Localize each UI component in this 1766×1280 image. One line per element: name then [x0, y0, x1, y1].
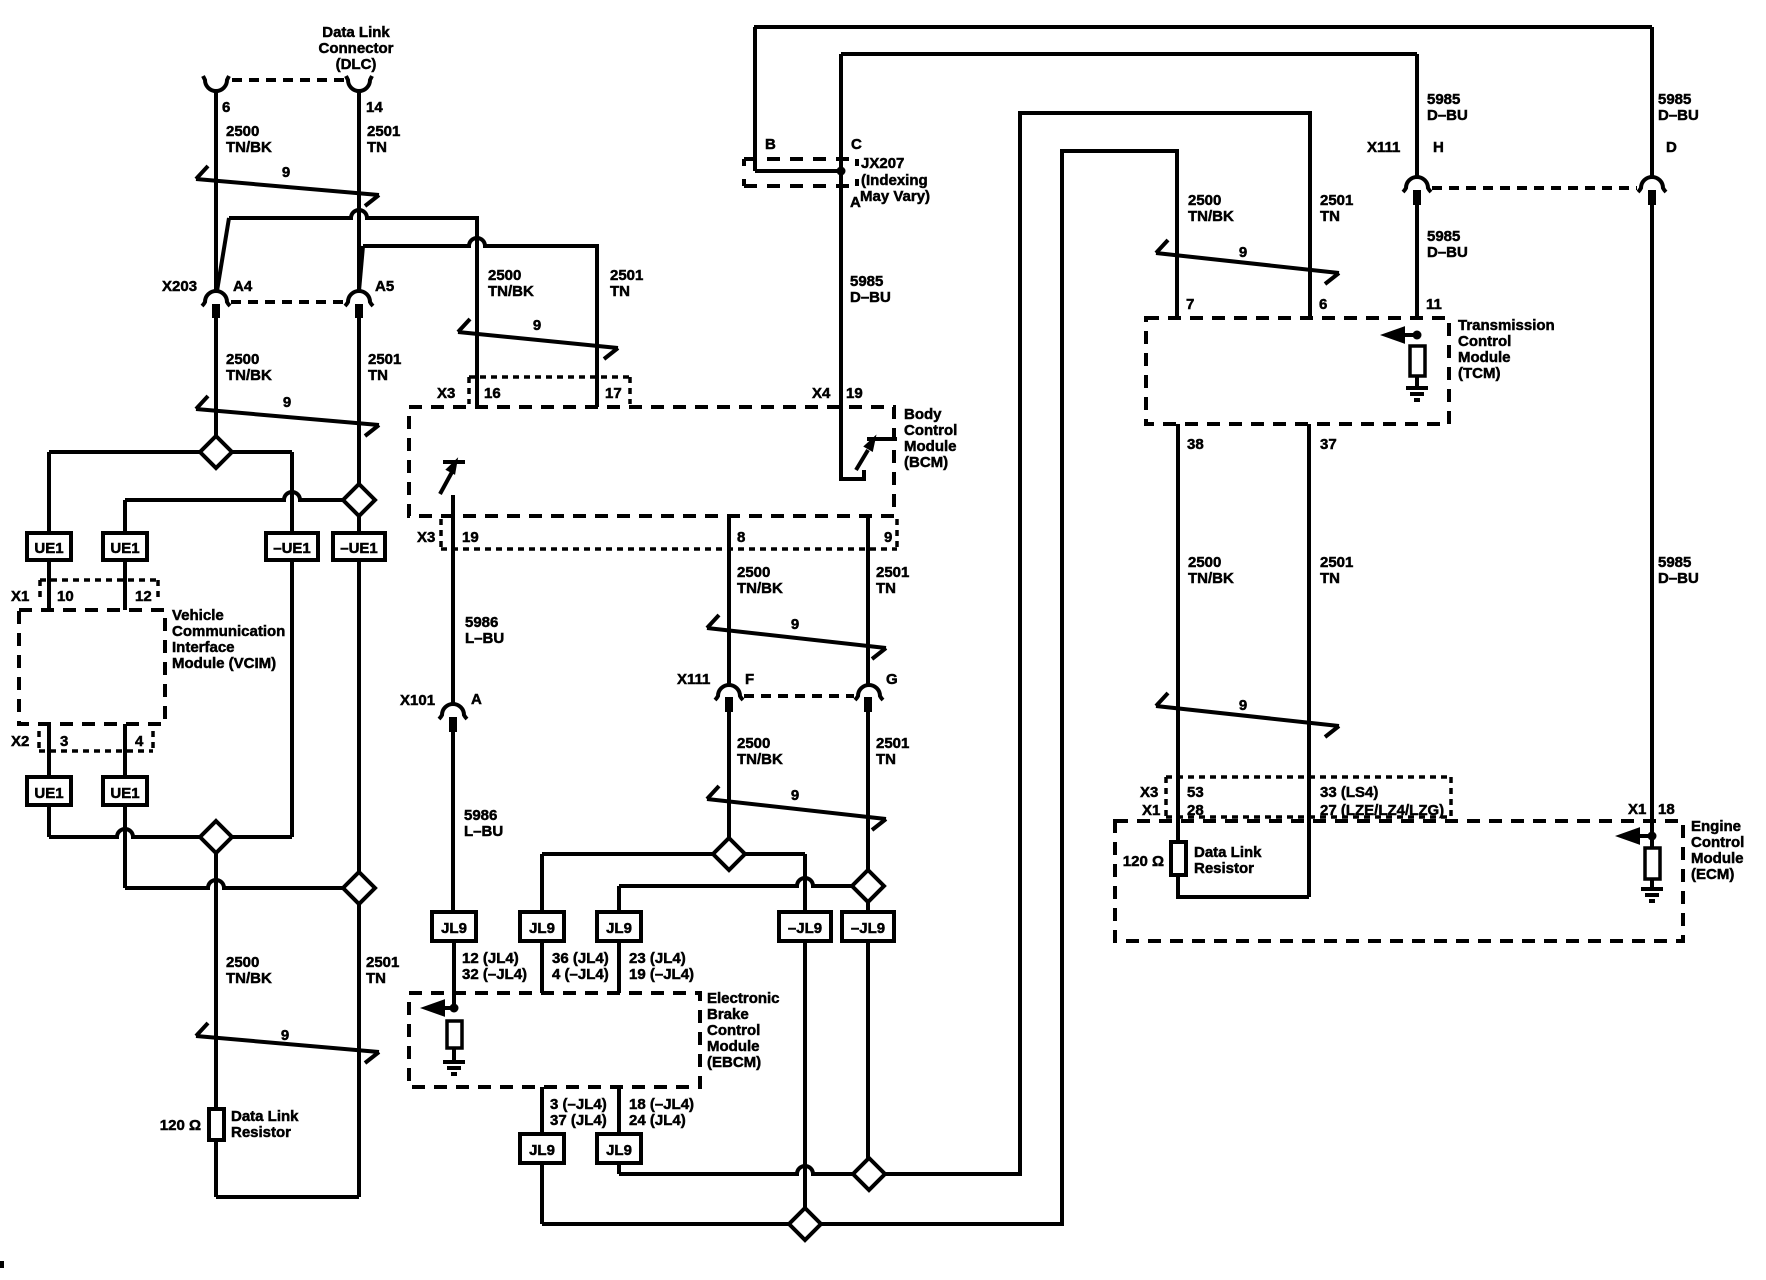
svg-text:5985: 5985 — [1658, 554, 1691, 571]
wire JX207 jumper — [755, 169, 841, 173]
wire bottom connecting 2500 to 2501 — [216, 1195, 359, 1199]
svg-text:B: B — [765, 136, 776, 153]
svg-text:2500: 2500 — [226, 123, 259, 140]
terminator box JL9 6 — [520, 1134, 564, 1163]
svg-text:(ECM): (ECM) — [1691, 866, 1734, 883]
wire to -UE1 box3 — [290, 452, 294, 533]
svg-text:X3: X3 — [1140, 784, 1158, 801]
svg-text:12 (JL4): 12 (JL4) — [462, 950, 519, 967]
svg-text:9: 9 — [283, 394, 291, 411]
wire UE1 to VCIM X1-10 — [47, 560, 51, 610]
svg-text:23 (JL4): 23 (JL4) — [629, 950, 686, 967]
DLC connector dashed link — [232, 78, 345, 82]
module box TCM — [1146, 318, 1449, 424]
resistor internal ECM — [1645, 848, 1660, 879]
X101 A male pin — [449, 717, 457, 732]
svg-text:X2: X2 — [11, 733, 29, 750]
wire to -JL9 box4 — [803, 854, 807, 912]
wire bus 2500 to TCM pin7 riser — [542, 151, 1177, 1224]
svg-text:May Vary): May Vary) — [860, 188, 930, 205]
svg-text:Body: Body — [904, 406, 942, 423]
svg-text:2501: 2501 — [610, 267, 643, 284]
wire UE1 to VCIM X1-12 — [123, 560, 127, 610]
svg-text:TN: TN — [876, 751, 896, 768]
wire UE1 box6 down to splice S4 line — [123, 805, 127, 888]
splice S2 — [343, 484, 375, 516]
splice S1 — [200, 436, 232, 468]
svg-text:7: 7 — [1186, 296, 1194, 313]
svg-text:C: C — [851, 136, 862, 153]
svg-text:Electronic: Electronic — [707, 990, 780, 1007]
svg-text:X1: X1 — [1142, 802, 1160, 819]
X111 F male pin — [725, 697, 733, 712]
svg-text:(BCM): (BCM) — [904, 454, 948, 471]
internal arrow BCM X4-19 — [841, 407, 864, 479]
wire splice S3 horizontal — [49, 829, 292, 837]
internal arrow ECM pin18 — [1637, 834, 1652, 838]
wire VCIM X2-3 — [47, 724, 51, 777]
module box ECM and data link resistor — [1115, 821, 1683, 941]
svg-text:Engine: Engine — [1691, 818, 1741, 835]
svg-text:TN: TN — [876, 580, 896, 597]
svg-text:L–BU: L–BU — [464, 823, 503, 840]
resistor R2 120 ohm data link resistor right — [1171, 842, 1186, 875]
wire UE1 box5 to splice S3 line — [47, 805, 51, 837]
svg-text:2500: 2500 — [1188, 554, 1221, 571]
svg-text:Transmission: Transmission — [1458, 317, 1555, 334]
svg-text:2501: 2501 — [1320, 554, 1353, 571]
svg-text:X1: X1 — [11, 588, 29, 605]
terminator box JL9 2 — [520, 912, 564, 941]
svg-text:X203: X203 — [162, 278, 197, 295]
resistor internal TCM — [1410, 346, 1425, 376]
svg-text:A5: A5 — [375, 278, 394, 295]
wire 2500 splice S3 to resistor R1 — [214, 853, 218, 1109]
wire 2501 X203 A5 to splice S2 to -UE1 — [357, 317, 361, 533]
svg-text:X101: X101 — [400, 692, 435, 709]
svg-text:Resistor: Resistor — [231, 1124, 291, 1141]
svg-text:D–BU: D–BU — [1427, 244, 1468, 261]
wire 2501 splice S4 to bottom — [357, 904, 361, 1197]
wire 2500 X111 F to splice S5 — [727, 712, 731, 838]
twisted pair marker 9 above TCM — [1156, 240, 1339, 284]
svg-text:9: 9 — [282, 164, 290, 181]
svg-text:–JL9: –JL9 — [788, 920, 822, 937]
svg-text:2500: 2500 — [488, 267, 521, 284]
wire 5986 L-BU BCM X3-19 to X101 A — [451, 495, 455, 704]
wire -UE1 box3 down to splice S3 — [290, 560, 294, 837]
splice S6 — [852, 870, 884, 902]
connector X111 G female arc — [855, 685, 883, 700]
terminator box -UE1 c — [266, 533, 318, 560]
svg-text:10: 10 — [57, 588, 74, 605]
ground TCM — [1406, 376, 1428, 400]
wire TCM pin37 2501 down — [1307, 424, 1311, 897]
svg-text:2500: 2500 — [1188, 192, 1221, 209]
svg-text:2500: 2500 — [226, 954, 259, 971]
wire 5985 D-BU D to ECM — [1650, 204, 1654, 848]
svg-text:A4: A4 — [233, 278, 253, 295]
splice S7 — [853, 1158, 885, 1190]
twisted pair marker 9 X111 to splices — [707, 786, 886, 830]
terminator box UE1 f — [103, 777, 147, 805]
wire -JL9 box4 down to splice S8 — [803, 941, 807, 1224]
svg-text:TN/BK: TN/BK — [737, 580, 783, 597]
svg-text:2500: 2500 — [226, 351, 259, 368]
svg-text:9: 9 — [1239, 244, 1247, 261]
connector X111 F female arc — [715, 685, 743, 700]
svg-text:18 (–JL4): 18 (–JL4) — [629, 1096, 694, 1113]
svg-text:TN: TN — [1320, 208, 1340, 225]
svg-text:2501: 2501 — [1320, 192, 1353, 209]
wire B down to JX207 — [753, 27, 757, 171]
svg-text:Module (VCIM): Module (VCIM) — [172, 655, 276, 672]
svg-text:Module: Module — [1458, 349, 1511, 366]
connector row X2 VCIM — [39, 731, 153, 751]
svg-text:19 (–JL4): 19 (–JL4) — [629, 966, 694, 983]
svg-text:32 (–JL4): 32 (–JL4) — [462, 966, 527, 983]
svg-text:JL9: JL9 — [529, 920, 555, 937]
connector X203 A5 female arc — [345, 291, 373, 306]
svg-text:TN/BK: TN/BK — [226, 367, 272, 384]
svg-text:Control: Control — [1458, 333, 1511, 350]
terminator box UE1 e — [27, 777, 71, 805]
X111 F-G dashed link — [744, 694, 854, 698]
svg-text:TN: TN — [367, 139, 387, 156]
svg-text:Connector: Connector — [319, 40, 394, 57]
svg-text:TN/BK: TN/BK — [1188, 570, 1234, 587]
wire TCM pin38 2500 to resistor R2 — [1176, 424, 1180, 842]
wire -JL9 box5 down to splice S7 — [866, 941, 870, 1158]
JX207 connector dashed box — [744, 159, 857, 186]
wire 2501 TN DLC pin14 to X203 A5 — [357, 90, 361, 291]
svg-text:(TCM): (TCM) — [1458, 365, 1500, 382]
svg-text:X1: X1 — [1628, 801, 1646, 818]
svg-text:TN: TN — [610, 283, 630, 300]
splice S4 — [343, 872, 375, 904]
svg-text:33 (LS4): 33 (LS4) — [1320, 784, 1378, 801]
wire X111 H to TCM pin11 — [1415, 204, 1419, 318]
terminator box UE1 a — [27, 533, 71, 560]
svg-text:Data Link: Data Link — [1194, 844, 1262, 861]
svg-text:4 (–JL4): 4 (–JL4) — [552, 966, 609, 983]
svg-text:A: A — [471, 691, 482, 708]
twisted pair marker 9 above resistor R1 — [196, 1023, 379, 1063]
svg-text:Interface: Interface — [172, 639, 235, 656]
wire resistor R2 bottom link — [1178, 875, 1309, 897]
wire JL9 box6 to bottom bus — [540, 1163, 544, 1224]
svg-text:Resistor: Resistor — [1194, 860, 1254, 877]
wire 2500 X203 A4 to splice S1 — [214, 317, 218, 437]
svg-text:18: 18 — [1658, 801, 1675, 818]
splice S8 — [789, 1208, 821, 1240]
svg-text:TN/BK: TN/BK — [1188, 208, 1234, 225]
svg-text:24 (JL4): 24 (JL4) — [629, 1112, 686, 1129]
svg-text:–JL9: –JL9 — [851, 920, 885, 937]
twisted pair marker 9 BCM X3 branch — [458, 319, 618, 359]
svg-text:2501: 2501 — [876, 735, 909, 752]
wire to JL9 box2 — [540, 854, 544, 912]
svg-text:X111: X111 — [677, 671, 710, 688]
wire bus 2501 to TCM pin6 riser — [619, 113, 1310, 1174]
terminator box -JL9 4 — [779, 912, 831, 941]
svg-text:38: 38 — [1187, 436, 1204, 453]
svg-text:D–BU: D–BU — [1658, 107, 1699, 124]
svg-text:4: 4 — [135, 733, 144, 750]
svg-text:9: 9 — [791, 787, 799, 804]
svg-text:5985: 5985 — [850, 273, 883, 290]
X111 H to D dashed link — [1432, 186, 1637, 190]
svg-text:5985: 5985 — [1658, 91, 1691, 108]
svg-text:TN/BK: TN/BK — [226, 970, 272, 987]
wire resistor R1 to bottom — [214, 1140, 218, 1197]
svg-text:2500: 2500 — [737, 735, 770, 752]
internal arrow BCM X3-19 — [440, 472, 452, 494]
svg-text:X3: X3 — [437, 385, 455, 402]
svg-text:Module: Module — [707, 1038, 760, 1055]
svg-text:D–BU: D–BU — [1658, 570, 1699, 587]
wire D drop to connector D — [1650, 27, 1654, 178]
wire 2501 X111 G to -JL9 box5 — [866, 712, 870, 912]
connector D female arc — [1638, 177, 1666, 192]
svg-text:(DLC): (DLC) — [336, 56, 377, 73]
wire 2501 BCM X3-9 to X111 G — [866, 516, 870, 685]
svg-text:Brake: Brake — [707, 1006, 749, 1023]
connector row X3 16/17 BCM — [469, 377, 630, 404]
svg-text:F: F — [745, 671, 754, 688]
svg-text:8: 8 — [737, 529, 745, 546]
svg-text:2500: 2500 — [737, 564, 770, 581]
wire splice S4 horizontal — [125, 880, 343, 888]
svg-text:53: 53 — [1187, 784, 1204, 801]
wire splice S6 horizontal to JL9 box3 — [619, 878, 852, 886]
wire 2500 TN/BK DLC pin6 to X203 A4 — [214, 90, 218, 291]
svg-text:2501: 2501 — [367, 123, 400, 140]
svg-text:UE1: UE1 — [110, 540, 139, 557]
wire JL9 box1 into EBCM — [452, 941, 456, 1008]
svg-text:27 (LZE/LZ4/LZG): 27 (LZE/LZ4/LZG) — [1320, 802, 1444, 819]
svg-text:Data Link: Data Link — [322, 24, 390, 41]
terminator box JL9 3 — [597, 912, 641, 941]
svg-text:9: 9 — [1239, 697, 1247, 714]
svg-text:2501: 2501 — [876, 564, 909, 581]
wire -UE1 box4 down to splice S4 — [357, 561, 361, 872]
connector DLC pin6 female cup — [203, 76, 229, 91]
svg-text:11: 11 — [1426, 296, 1442, 313]
svg-text:9: 9 — [791, 616, 799, 633]
wire 5986 L-BU X101 A to JL9 — [451, 732, 455, 912]
svg-text:TN/BK: TN/BK — [226, 139, 272, 156]
svg-text:TN: TN — [366, 970, 386, 987]
X203 A5 male pin — [355, 304, 363, 318]
twisted pair marker 9 BCM to X111 — [707, 615, 886, 659]
svg-text:JL9: JL9 — [606, 920, 632, 937]
X203 A4 male pin — [212, 304, 220, 318]
ground ECM — [1641, 879, 1663, 901]
twisted pair marker 9 below X203 — [196, 396, 379, 436]
wire branch 2501 from A5 to BCM X3-17 — [363, 238, 597, 407]
wire splice S5 horizontal — [542, 852, 805, 856]
wire to UE1 pin10 — [47, 452, 51, 533]
svg-text:9: 9 — [281, 1027, 289, 1044]
terminator box -UE1 d — [333, 533, 385, 560]
connector X203 A4 female arc — [202, 291, 230, 306]
svg-text:120 Ω: 120 Ω — [160, 1117, 201, 1134]
svg-text:UE1: UE1 — [34, 540, 63, 557]
wire 2500 BCM X3-8 to X111 F — [727, 516, 731, 685]
svg-text:–UE1: –UE1 — [340, 540, 378, 557]
wire H drop to X111 H — [1415, 54, 1419, 178]
connector X111 H female arc — [1403, 177, 1431, 192]
svg-text:Control: Control — [707, 1022, 760, 1039]
svg-text:H: H — [1433, 139, 1444, 156]
svg-text:D–BU: D–BU — [850, 289, 891, 306]
svg-text:37: 37 — [1320, 436, 1337, 453]
svg-text:(Indexing: (Indexing — [861, 172, 928, 189]
svg-text:3 (–JL4): 3 (–JL4) — [550, 1096, 607, 1113]
svg-text:D: D — [1666, 139, 1677, 156]
JX207 junction dot — [837, 167, 846, 176]
twisted pair marker 9 DLC — [196, 166, 379, 206]
X111 G male pin — [864, 697, 872, 712]
svg-text:TN: TN — [368, 367, 388, 384]
splice S5 — [713, 838, 745, 870]
corner mark — [0, 1261, 4, 1268]
connector X101 A female arc — [439, 704, 467, 719]
svg-text:X4: X4 — [812, 385, 831, 402]
svg-text:L–BU: L–BU — [465, 630, 504, 647]
connector D male pin — [1648, 190, 1656, 205]
svg-text:Module: Module — [1691, 850, 1744, 867]
terminator box JL9 7 — [597, 1134, 641, 1163]
module box BCM — [409, 407, 894, 516]
svg-text:5985: 5985 — [1427, 228, 1460, 245]
twisted pair marker 9 below TCM — [1156, 693, 1339, 737]
wire EBCM to JL9 box7 — [617, 1087, 621, 1134]
svg-text:19: 19 — [846, 385, 863, 402]
svg-text:14: 14 — [366, 99, 383, 116]
svg-text:UE1: UE1 — [34, 785, 63, 802]
svg-text:D–BU: D–BU — [1427, 107, 1468, 124]
module box VCIM — [19, 610, 165, 724]
svg-text:–UE1: –UE1 — [273, 540, 311, 557]
svg-text:JL9: JL9 — [606, 1142, 632, 1159]
svg-text:(EBCM): (EBCM) — [707, 1054, 761, 1071]
svg-text:Communication: Communication — [172, 623, 285, 640]
svg-text:17: 17 — [605, 385, 622, 402]
svg-text:5985: 5985 — [1427, 91, 1460, 108]
wire JL9 box2 to EBCM — [540, 941, 544, 993]
svg-text:9: 9 — [884, 529, 892, 546]
svg-text:120 Ω: 120 Ω — [1123, 853, 1164, 870]
svg-text:JL9: JL9 — [529, 1142, 555, 1159]
splice S3 — [200, 821, 232, 853]
svg-text:3: 3 — [60, 733, 68, 750]
svg-text:X3: X3 — [417, 529, 435, 546]
wire 5985 D-BU second line C to H — [841, 52, 1417, 56]
svg-text:2501: 2501 — [366, 954, 399, 971]
connector row X3/X1 ECM side — [1166, 777, 1451, 817]
ground EBCM — [443, 1048, 465, 1074]
svg-text:12: 12 — [135, 588, 152, 605]
wire JL9 box3 to EBCM — [617, 941, 621, 993]
wire EBCM to JL9 box6 — [540, 1087, 544, 1134]
svg-text:16: 16 — [484, 385, 501, 402]
connector DLC pin14 female cup — [346, 76, 372, 91]
module box EBCM — [409, 993, 700, 1087]
svg-text:28: 28 — [1187, 802, 1204, 819]
svg-text:JX207: JX207 — [861, 155, 904, 172]
wire 5985 D-BU top line B to D — [754, 25, 1652, 29]
svg-text:Control: Control — [904, 422, 957, 439]
svg-text:Data Link: Data Link — [231, 1108, 299, 1125]
terminator box UE1 b — [103, 533, 147, 560]
svg-text:6: 6 — [1319, 296, 1327, 313]
wire branch 2500 from A4 to BCM X3-16 — [229, 210, 477, 407]
svg-text:JL9: JL9 — [441, 920, 467, 937]
svg-text:X111: X111 — [1367, 139, 1400, 156]
wire C/A down to BCM X4-19 — [839, 54, 843, 407]
svg-text:Module: Module — [904, 438, 957, 455]
resistor internal EBCM — [447, 1021, 462, 1048]
wire VCIM X2-4 — [123, 724, 127, 777]
connector row X3 BCM bottom — [441, 519, 897, 549]
svg-text:TN: TN — [1320, 570, 1340, 587]
svg-text:2501: 2501 — [368, 351, 401, 368]
connector row X1 VCIM — [40, 580, 158, 602]
internal arrow TCM pin11 — [1402, 333, 1417, 337]
svg-text:TN/BK: TN/BK — [488, 283, 534, 300]
svg-text:6: 6 — [222, 99, 230, 116]
wire JL9 box7 to bus — [617, 1163, 621, 1174]
svg-text:5986: 5986 — [464, 807, 497, 824]
wire splice S1 horizontal — [49, 450, 292, 454]
svg-text:UE1: UE1 — [110, 785, 139, 802]
terminator box JL9 1 — [432, 912, 476, 941]
svg-text:9: 9 — [533, 317, 541, 334]
svg-text:Control: Control — [1691, 834, 1744, 851]
svg-text:G: G — [886, 671, 898, 688]
svg-text:Vehicle: Vehicle — [172, 607, 224, 624]
svg-text:5986: 5986 — [465, 614, 498, 631]
svg-text:TN/BK: TN/BK — [737, 751, 783, 768]
wire splice S2 horizontal to UE1 pin12 — [125, 492, 343, 500]
svg-text:36 (JL4): 36 (JL4) — [552, 950, 609, 967]
terminator box -JL9 5 — [842, 912, 894, 941]
svg-text:19: 19 — [462, 529, 479, 546]
svg-text:37 (JL4): 37 (JL4) — [550, 1112, 607, 1129]
X111 H male pin — [1413, 190, 1421, 205]
resistor R1 120 ohm data link resistor left — [209, 1109, 224, 1140]
internal arrow EBCM — [441, 1006, 454, 1010]
X203 dashed link — [231, 300, 344, 304]
